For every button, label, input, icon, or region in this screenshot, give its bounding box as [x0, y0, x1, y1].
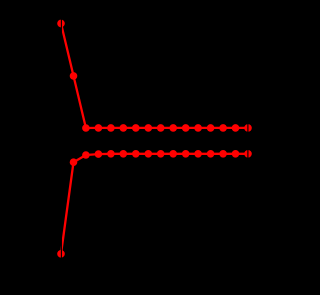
series A marker point 8 (160.7,127.9) — [157, 124, 165, 132]
series A marker point 9 (173.2,127.9) — [169, 124, 177, 132]
series A marker point 5 (123.3,127.9) — [120, 124, 128, 132]
series A marker point 10 (185.7,127.9) — [182, 124, 190, 132]
series B marker point 0 (61.0,253.8) — [57, 250, 65, 258]
right plot border (black, drawn over markers) — [247, 0, 249, 295]
series A marker point 3 (98.4,127.9) — [95, 124, 103, 132]
series A marker point 2 (85.9,128.0) — [82, 124, 90, 132]
series B marker point 4 (110.9,153.8) — [107, 150, 115, 158]
series A marker point 14 (235.5,127.9) — [232, 124, 240, 132]
series A marker point 13 (223.1,127.9) — [219, 124, 227, 132]
series A marker point 6 (135.8,127.9) — [132, 124, 140, 132]
left plot border (black, drawn over markers) — [60, 0, 62, 295]
series A marker point 4 (110.9,127.9) — [107, 124, 115, 132]
series B marker point 5 (123.3,153.8) — [120, 150, 128, 158]
series B marker point 15 (248.0,153.8) — [244, 150, 252, 158]
series B marker point 8 (160.7,153.8) — [157, 150, 165, 158]
series B (lower branch) connecting line — [61, 154, 248, 254]
series B marker point 7 (148.3,153.8) — [145, 150, 153, 158]
series B marker point 14 (235.5,153.8) — [232, 150, 240, 158]
series B marker point 2 (85.9,155.0) — [82, 151, 90, 159]
series A marker point 11 (198.1,127.9) — [194, 124, 202, 132]
series B marker point 3 (98.4,154.1) — [95, 150, 103, 158]
series B marker point 12 (210.6,153.8) — [207, 150, 215, 158]
series B marker point 13 (223.1,153.8) — [219, 150, 227, 158]
series A marker point 1 (73.5,75.9) — [70, 72, 78, 80]
series A marker point 15 (248.0,127.9) — [244, 124, 252, 132]
series B marker point 10 (185.7,153.8) — [182, 150, 190, 158]
series B marker point 1 (73.5,162.2) — [70, 158, 78, 166]
series A marker point 12 (210.6,127.9) — [207, 124, 215, 132]
series B marker point 11 (198.1,153.8) — [194, 150, 202, 158]
series A (upper branch) connecting line — [61, 23, 248, 128]
series A marker point 7 (148.3,127.9) — [145, 124, 153, 132]
series B marker point 6 (135.8,153.8) — [132, 150, 140, 158]
series A marker point 0 (61.0,23.4) — [57, 20, 65, 28]
series B marker point 9 (173.2,153.8) — [169, 150, 177, 158]
